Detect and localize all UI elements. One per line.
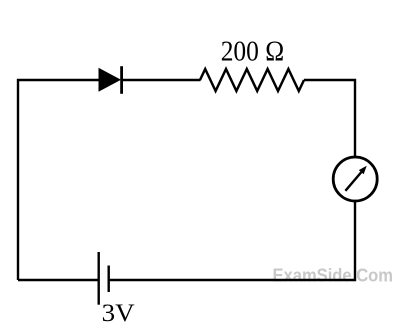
- wire left and top-left segment: [18, 80, 100, 280]
- wire meter to bottom-right corner and to battery: [110, 201, 356, 280]
- diode D1 cathode bar: [120, 66, 123, 94]
- resistor R1 zigzag: [200, 69, 304, 91]
- svg-text:200 Ω: 200 Ω: [221, 36, 285, 68]
- meter needle arrowhead: [359, 166, 367, 175]
- svg-text:3V: 3V: [102, 300, 135, 327]
- wire resistor to top-right corner down to meter: [304, 80, 355, 157]
- diode D1 triangle: [99, 68, 122, 92]
- svg-text:ExamSide.Com: ExamSide.Com: [273, 265, 394, 285]
- meter needle: [345, 172, 361, 191]
- wire battery to bottom-left: [18, 279, 99, 281]
- wire diode to resistor: [122, 79, 201, 81]
- battery short plate: [107, 266, 109, 293]
- battery long plate: [97, 252, 99, 305]
- meter M1 circle: [333, 157, 377, 201]
